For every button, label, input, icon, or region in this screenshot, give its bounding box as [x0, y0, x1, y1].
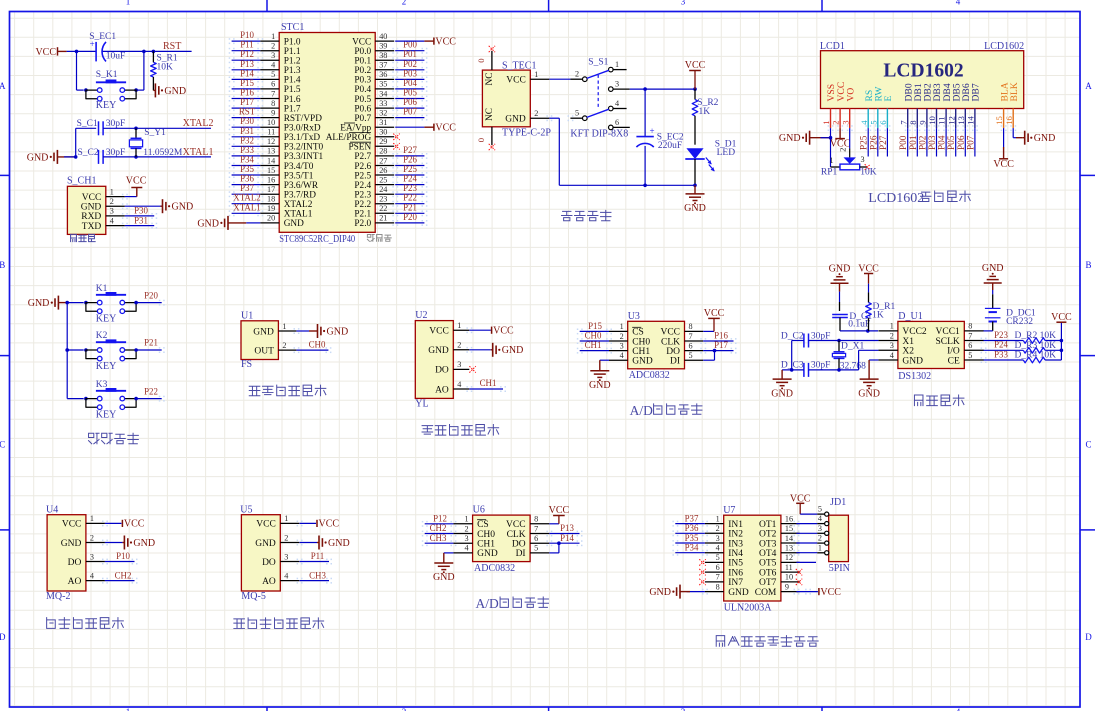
- svg-text:P01: P01: [403, 49, 417, 59]
- svg-text:P07: P07: [966, 135, 976, 150]
- svg-text:P36: P36: [240, 174, 254, 184]
- svg-text:P2.6: P2.6: [354, 162, 371, 172]
- svg-text:GND: GND: [433, 572, 455, 583]
- power port VCC (power circuit): [689, 70, 701, 72]
- wire S_TEC1 pin1 to switch: [549, 78, 570, 80]
- svg-text:CH2: CH2: [115, 570, 132, 580]
- svg-text:15: 15: [267, 166, 275, 175]
- ground (U3 pin4): [600, 359, 609, 361]
- ground (U5 pin2): [300, 542, 318, 544]
- svg-text:NC: NC: [485, 108, 495, 121]
- svg-text:1: 1: [271, 32, 275, 41]
- svg-text:1: 1: [821, 120, 831, 124]
- svg-text:EA/Vpp: EA/Vpp: [340, 124, 371, 134]
- svg-text:STC89C52RC_DIP40: STC89C52RC_DIP40: [279, 234, 355, 245]
- svg-text:P0.4: P0.4: [354, 85, 371, 95]
- wire S_TEC1 pin2 GND bus: [549, 117, 559, 119]
- LCD pin1 VSS wire to gnd: [830, 128, 832, 138]
- svg-text:CH0: CH0: [585, 331, 602, 341]
- svg-text:P23: P23: [403, 183, 417, 193]
- svg-text:D_U1: D_U1: [898, 311, 922, 322]
- svg-text:P14: P14: [560, 533, 574, 543]
- svg-text:CR232: CR232: [1006, 317, 1033, 327]
- svg-text:3: 3: [840, 120, 850, 124]
- svg-text:P13: P13: [560, 523, 574, 533]
- svg-text:P02: P02: [403, 59, 417, 69]
- svg-text:14: 14: [267, 156, 275, 165]
- svg-text:S_CH1: S_CH1: [67, 176, 96, 187]
- svg-text:MQ-2: MQ-2: [46, 591, 70, 602]
- svg-text:P03: P03: [403, 68, 417, 78]
- svg-text:GND: GND: [61, 539, 82, 549]
- svg-text:4: 4: [457, 380, 461, 389]
- svg-text:COM: COM: [755, 588, 777, 598]
- svg-text:21: 21: [379, 214, 387, 223]
- battery D_DC1 CR232: [985, 307, 1001, 309]
- wire P31: [125, 225, 154, 227]
- chip D_U1 DS1302: [898, 321, 964, 368]
- svg-text:10K: 10K: [860, 168, 877, 178]
- crystal S_Y1 11.0592M: [135, 128, 137, 138]
- wires U7 to JD1: [796, 523, 817, 525]
- svg-text:P26: P26: [403, 155, 417, 165]
- svg-text:CH0: CH0: [309, 339, 326, 349]
- svg-text:P37: P37: [685, 513, 699, 523]
- ground (D_U1 pin4): [869, 359, 878, 361]
- svg-text:GND: GND: [477, 549, 498, 559]
- svg-text:P2.1: P2.1: [354, 210, 371, 220]
- svg-text:P3.7/RD: P3.7/RD: [284, 191, 317, 201]
- svg-text:+: +: [650, 126, 655, 136]
- svg-text:3: 3: [90, 552, 94, 561]
- svg-text:KEY: KEY: [96, 361, 117, 372]
- svg-text:7: 7: [534, 524, 538, 533]
- svg-text:S_C2: S_C2: [78, 148, 99, 158]
- svg-text:P03: P03: [928, 135, 938, 150]
- junction: [134, 127, 138, 131]
- svg-text:13: 13: [956, 116, 966, 125]
- svg-text:XTAL1: XTAL1: [284, 210, 313, 220]
- junction: [75, 50, 79, 54]
- ADC U3 ADC0832: [628, 321, 685, 369]
- svg-text:OT4: OT4: [759, 549, 777, 559]
- svg-text:YL: YL: [415, 398, 428, 409]
- wire P14 and DI tie: [549, 542, 579, 544]
- svg-text:CH0: CH0: [477, 530, 495, 540]
- svg-text:ULN2003A: ULN2003A: [724, 602, 773, 613]
- svg-text:P27: P27: [403, 145, 417, 155]
- svg-text:27: 27: [379, 156, 387, 165]
- svg-text:CH1: CH1: [480, 378, 497, 388]
- wire net P22: [136, 398, 162, 400]
- svg-text:5: 5: [968, 351, 972, 360]
- svg-text:OT6: OT6: [759, 568, 777, 578]
- resistor S_R1 10K: [152, 51, 154, 62]
- svg-text:CH0: CH0: [632, 337, 650, 347]
- svg-text:31: 31: [379, 118, 387, 127]
- svg-text:14: 14: [966, 115, 976, 124]
- svg-text:2: 2: [831, 120, 841, 124]
- svg-text:IN2: IN2: [728, 530, 743, 540]
- svg-text:PSEN: PSEN: [348, 143, 371, 153]
- svg-text:8: 8: [716, 582, 720, 591]
- svg-text:P11: P11: [240, 40, 253, 50]
- svg-text:S_TEC1: S_TEC1: [502, 61, 536, 72]
- svg-text:32: 32: [379, 108, 387, 117]
- svg-text:B: B: [1085, 260, 1091, 270]
- svg-text:15: 15: [994, 116, 1004, 125]
- svg-text:GND: GND: [632, 357, 653, 367]
- svg-text:P34: P34: [685, 543, 699, 553]
- svg-text:VCC: VCC: [352, 37, 371, 47]
- wires left of U7: [675, 523, 705, 525]
- label yanwu jiance mokuai: [47, 618, 56, 629]
- LCD pin16 wire to gnd: [1012, 128, 1014, 138]
- wire CH3: [300, 580, 330, 582]
- svg-text:24: 24: [379, 185, 387, 194]
- key K2: [67, 349, 84, 351]
- svg-text:6: 6: [534, 534, 538, 543]
- svg-text:GND: GND: [164, 86, 186, 97]
- svg-text:220uF: 220uF: [658, 141, 682, 151]
- wire P16: [703, 340, 733, 342]
- svg-text:4: 4: [956, 0, 961, 7]
- svg-text:CH1: CH1: [477, 540, 495, 550]
- svg-text:6: 6: [615, 118, 619, 127]
- svg-text:P15: P15: [588, 321, 602, 331]
- svg-text:3: 3: [716, 534, 720, 543]
- svg-text:VCC: VCC: [124, 519, 145, 530]
- svg-text:4: 4: [110, 216, 114, 225]
- no-ERC U7 pins 11,10: [796, 569, 802, 576]
- svg-text:3: 3: [465, 534, 469, 543]
- svg-text:VCC: VCC: [704, 308, 725, 319]
- svg-text:DS1302: DS1302: [898, 371, 931, 382]
- svg-text:5: 5: [818, 505, 822, 514]
- svg-text:CH1: CH1: [632, 347, 650, 357]
- junction: [74, 155, 78, 159]
- svg-text:P11: P11: [311, 551, 324, 561]
- ground (power circuit): [694, 185, 696, 194]
- svg-text:A: A: [0, 81, 6, 91]
- wire XTAL2: [103, 127, 211, 129]
- svg-text:4: 4: [818, 514, 822, 523]
- svg-text:10: 10: [785, 573, 793, 582]
- svg-text:6: 6: [968, 341, 972, 350]
- svg-text:GND: GND: [829, 264, 851, 275]
- svg-text:VCC: VCC: [506, 76, 526, 86]
- svg-text:IN4: IN4: [728, 549, 743, 559]
- svg-text:P37: P37: [240, 183, 254, 193]
- svg-text:1K: 1K: [872, 311, 884, 321]
- svg-text:11: 11: [937, 116, 947, 124]
- no-ERC U7 pins 5-7: [699, 559, 705, 565]
- label fengsu jiance mokuai: [249, 386, 260, 396]
- svg-text:RST: RST: [163, 41, 181, 52]
- svg-text:XTAL2: XTAL2: [183, 118, 214, 129]
- svg-text:30pF: 30pF: [106, 119, 126, 129]
- svg-text:XTAL1: XTAL1: [233, 202, 260, 212]
- junction: [84, 88, 88, 92]
- svg-text:GND: GND: [133, 538, 155, 549]
- svg-text:VCC: VCC: [1051, 312, 1072, 323]
- svg-text:1: 1: [465, 515, 469, 524]
- svg-text:P24: P24: [403, 174, 417, 184]
- svg-text:GND: GND: [684, 203, 706, 214]
- svg-text:VCC: VCC: [126, 175, 147, 186]
- ground (D_C1 top): [831, 282, 849, 284]
- svg-text:VCC: VCC: [820, 587, 841, 598]
- svg-text:GND: GND: [771, 388, 793, 399]
- svg-text:A/D: A/D: [476, 596, 500, 611]
- junction: [829, 136, 833, 140]
- svg-text:5PIN: 5PIN: [829, 563, 850, 574]
- svg-text:8: 8: [534, 515, 538, 524]
- wire X1 row: [792, 340, 804, 342]
- pullup resistors D_R2-D_R4 10K: [984, 340, 1024, 342]
- svg-text:P3.3/INT1: P3.3/INT1: [284, 152, 324, 162]
- svg-text:IN7: IN7: [728, 578, 743, 588]
- svg-text:1: 1: [890, 322, 894, 331]
- svg-text:0: 0: [476, 137, 486, 142]
- svg-text:P2.2: P2.2: [354, 200, 371, 210]
- svg-text:12: 12: [267, 137, 275, 146]
- svg-text:CS: CS: [632, 328, 644, 338]
- svg-text:DO: DO: [68, 558, 82, 568]
- svg-text:DB7: DB7: [971, 83, 982, 101]
- svg-text:4: 4: [465, 544, 469, 553]
- svg-text:10: 10: [267, 118, 275, 127]
- wire bottom row (X2): [782, 369, 804, 371]
- svg-text:2: 2: [838, 148, 848, 152]
- svg-text:2: 2: [575, 70, 579, 79]
- svg-text:38: 38: [379, 51, 387, 60]
- svg-text:GND: GND: [505, 115, 526, 125]
- svg-text:VCC: VCC: [549, 505, 570, 516]
- MCU STC1 STC89C52RC_DIP40: [279, 33, 375, 233]
- svg-text:IN5: IN5: [728, 559, 743, 569]
- S_TEC1 top stub pin: [491, 51, 493, 70]
- svg-text:P31: P31: [240, 126, 254, 136]
- svg-text:5: 5: [534, 544, 538, 553]
- svg-text:DO: DO: [435, 366, 449, 376]
- svg-text:P1.3: P1.3: [284, 66, 301, 76]
- svg-text:8: 8: [908, 120, 918, 125]
- svg-text:5: 5: [271, 70, 275, 79]
- svg-text:P1.6: P1.6: [284, 95, 301, 105]
- svg-text:P0.3: P0.3: [354, 76, 371, 86]
- svg-text:18: 18: [267, 195, 275, 204]
- svg-text:P2.0: P2.0: [354, 219, 371, 229]
- svg-text:CS: CS: [477, 520, 489, 530]
- svg-text:2: 2: [110, 197, 114, 206]
- svg-text:3: 3: [110, 207, 114, 216]
- svg-text:11.0592M: 11.0592M: [143, 148, 183, 158]
- svg-text:1: 1: [620, 322, 624, 331]
- svg-text:28: 28: [379, 147, 387, 156]
- svg-text:3: 3: [457, 360, 461, 369]
- ground (crystal): [56, 150, 58, 164]
- svg-text:VCC1: VCC1: [936, 327, 961, 337]
- svg-text:3: 3: [615, 80, 619, 89]
- svg-text:P35: P35: [240, 164, 254, 174]
- svg-text:1K: 1K: [699, 107, 711, 117]
- svg-text:GND: GND: [728, 588, 749, 598]
- svg-text:P34: P34: [240, 155, 254, 165]
- crystal D_X1 32.768: [838, 341, 840, 352]
- svg-text:GND: GND: [328, 538, 350, 549]
- svg-text:1: 1: [126, 707, 131, 711]
- svg-text:1: 1: [829, 156, 833, 165]
- svg-text:VO: VO: [845, 88, 856, 102]
- svg-text:P21: P21: [403, 202, 417, 212]
- svg-text:IN1: IN1: [728, 520, 743, 530]
- svg-text:2: 2: [284, 533, 288, 542]
- switch link dashed: [597, 75, 599, 110]
- power port VCC (LCD pin15): [1003, 128, 1005, 147]
- ground (U2 pin2): [469, 349, 490, 351]
- svg-text:P06: P06: [403, 97, 417, 107]
- svg-text:P31: P31: [134, 215, 148, 225]
- ground (S_CH1 pin2): [125, 205, 161, 207]
- svg-text:P25: P25: [860, 135, 870, 150]
- ADC U6 ADC0832: [473, 515, 530, 562]
- svg-text:OT7: OT7: [759, 578, 777, 588]
- svg-text:4: 4: [90, 571, 94, 580]
- svg-text:D: D: [0, 632, 6, 642]
- svg-text:13: 13: [785, 544, 793, 553]
- svg-text:VCC: VCC: [62, 520, 82, 530]
- svg-text:D_C2: D_C2: [781, 331, 804, 341]
- svg-text:1: 1: [284, 514, 288, 523]
- connector S_TEC1 TYPE-C-2P: [482, 70, 530, 127]
- label dianyuan dianlu: [562, 211, 572, 220]
- svg-text:2: 2: [534, 109, 538, 118]
- svg-text:P3.0/RxD: P3.0/RxD: [284, 124, 321, 134]
- svg-text:4: 4: [716, 544, 720, 553]
- no-ERC marks pins 30,29: [393, 134, 399, 140]
- module U1 FS wind sensor: [241, 321, 278, 360]
- label yushui jiance mokuai: [422, 426, 433, 434]
- svg-text:OUT: OUT: [254, 346, 274, 356]
- svg-text:VCC: VCC: [435, 122, 456, 133]
- svg-text:P07: P07: [403, 107, 417, 117]
- svg-text:16: 16: [785, 514, 793, 523]
- svg-text:4: 4: [271, 61, 275, 70]
- svg-text:2: 2: [457, 341, 461, 350]
- svg-text:1: 1: [818, 543, 822, 552]
- svg-text:LCD1: LCD1: [820, 41, 845, 52]
- svg-text:12: 12: [946, 116, 956, 125]
- svg-text:RP1: RP1: [821, 168, 838, 178]
- svg-text:XTAL2: XTAL2: [233, 193, 260, 203]
- svg-text:ADC0832: ADC0832: [629, 370, 670, 381]
- svg-text:30pF: 30pF: [811, 331, 831, 341]
- svg-text:P0.5: P0.5: [354, 95, 371, 105]
- wire to D_U1 pin1: [840, 330, 878, 332]
- svg-text:P1.2: P1.2: [284, 57, 301, 67]
- svg-text:OT2: OT2: [759, 530, 777, 540]
- svg-text:4: 4: [620, 351, 624, 360]
- svg-text:12: 12: [785, 553, 793, 562]
- resistor S_R2 1K: [694, 89, 696, 99]
- LED S_D1: [686, 148, 703, 159]
- svg-text:3: 3: [860, 155, 864, 164]
- svg-text:CH2: CH2: [430, 523, 447, 533]
- svg-text:P23: P23: [994, 330, 1008, 340]
- svg-text:P3.2/INT0: P3.2/INT0: [284, 143, 324, 153]
- svg-text:RXD: RXD: [81, 212, 101, 222]
- svg-text:VCC: VCC: [493, 325, 514, 336]
- label sixiang wuxian bujin dianji: [716, 636, 724, 647]
- svg-text:GND: GND: [327, 326, 349, 337]
- power port VCC (U3 pin8): [703, 330, 714, 332]
- svg-text:25: 25: [379, 175, 387, 184]
- svg-text:LCD1602: LCD1602: [868, 191, 924, 206]
- junction: [152, 50, 156, 54]
- svg-text:P30: P30: [134, 206, 148, 216]
- svg-text:P1.0: P1.0: [284, 37, 301, 47]
- connector JD1 5PIN: [829, 515, 849, 561]
- svg-text:P20: P20: [144, 290, 158, 300]
- svg-text:P06: P06: [957, 135, 967, 150]
- svg-text:P04: P04: [938, 135, 948, 150]
- svg-text:36: 36: [379, 70, 387, 79]
- svg-text:3: 3: [818, 524, 822, 533]
- wires LCD pins 4-14 with rotated net labels: [867, 128, 869, 156]
- svg-text:P2.4: P2.4: [354, 181, 371, 191]
- wire pullup common to VCC: [1060, 323, 1062, 360]
- svg-text:P1.5: P1.5: [284, 85, 301, 95]
- svg-text:P15: P15: [240, 78, 254, 88]
- svg-text:D_R2 10K: D_R2 10K: [1015, 331, 1057, 341]
- svg-text:5: 5: [716, 553, 720, 562]
- svg-text:B: B: [0, 260, 5, 270]
- junction: [837, 339, 841, 343]
- svg-text:P3.5/T1: P3.5/T1: [284, 171, 314, 181]
- svg-text:AO: AO: [68, 577, 82, 587]
- svg-text:P17: P17: [240, 97, 254, 107]
- svg-text:14: 14: [785, 534, 793, 543]
- svg-text:BLK: BLK: [1009, 82, 1020, 101]
- svg-text:DO: DO: [666, 347, 680, 357]
- svg-text:ADC0832: ADC0832: [474, 563, 515, 574]
- label xiazaikou: [71, 234, 77, 241]
- svg-text:P27: P27: [879, 135, 889, 150]
- svg-text:GND: GND: [172, 202, 194, 213]
- svg-text:P26: P26: [869, 135, 879, 150]
- ground (U4 pin2): [105, 542, 123, 544]
- svg-text:39: 39: [379, 42, 387, 51]
- svg-text:GND: GND: [28, 298, 50, 309]
- svg-text:S_S1: S_S1: [588, 57, 608, 67]
- junction: [65, 348, 69, 352]
- power port VCC (U6 pin8): [549, 523, 559, 525]
- svg-text:A/D: A/D: [630, 403, 654, 418]
- svg-text:ALE/PROG: ALE/PROG: [326, 133, 372, 143]
- svg-text:2: 2: [90, 533, 94, 542]
- svg-text:5: 5: [868, 120, 878, 124]
- svg-text:1: 1: [110, 187, 114, 196]
- svg-text:VCC: VCC: [82, 193, 102, 203]
- svg-text:P21: P21: [144, 338, 158, 348]
- svg-text:19: 19: [267, 204, 275, 213]
- module U5 MQ-5 gas sensor: [241, 515, 280, 591]
- svg-text:DI: DI: [670, 357, 680, 367]
- svg-text:1: 1: [457, 321, 461, 330]
- svg-text:P1.1: P1.1: [284, 47, 301, 57]
- power port VCC (STC1 pin40): [395, 40, 424, 42]
